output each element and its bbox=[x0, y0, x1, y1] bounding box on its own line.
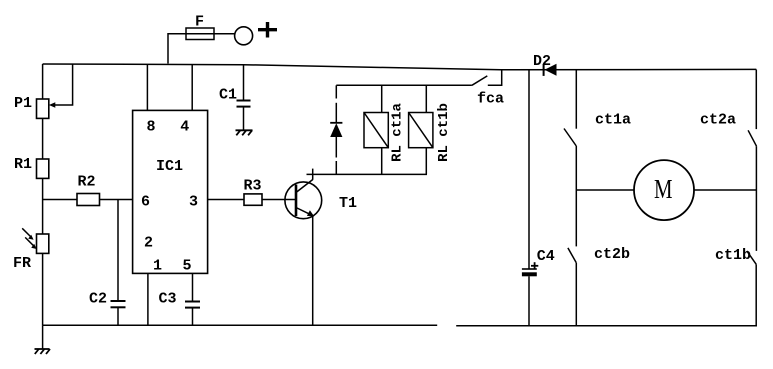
wire: R3 to T1 base bbox=[262, 199, 296, 201]
wire: T1 emitter to ground rail bbox=[312, 216, 314, 325]
svg-text:C4: C4 bbox=[537, 248, 555, 265]
wire: motor left lead bbox=[576, 189, 634, 191]
photoresistor FR bbox=[37, 234, 49, 253]
switch ct2b blade bbox=[568, 248, 576, 263]
svg-text:6: 6 bbox=[141, 194, 150, 211]
switch ct2a blade bbox=[748, 130, 756, 146]
svg-text:M: M bbox=[654, 174, 673, 204]
svg-text:D2: D2 bbox=[533, 53, 551, 70]
wire: pin3 to R3 bbox=[208, 199, 244, 201]
battery terminal circle bbox=[235, 27, 253, 45]
capacitor C2 bbox=[111, 200, 126, 326]
svg-text:R1: R1 bbox=[14, 156, 32, 173]
fuse F bbox=[186, 28, 235, 40]
FR light arrow 2 bbox=[25, 237, 36, 249]
relay coil RL ct1b bbox=[409, 85, 433, 174]
svg-text:ct2a: ct2a bbox=[700, 112, 736, 129]
wire: bridge right rail upper bbox=[755, 70, 757, 130]
svg-text:ct1a: ct1a bbox=[595, 112, 631, 129]
C4 plus polarity mark bbox=[531, 262, 538, 269]
wire: bridge right rail lower bbox=[755, 264, 757, 326]
switch fca blade bbox=[472, 76, 487, 85]
wire: pin8 riser bbox=[146, 64, 148, 110]
svg-text:fca: fca bbox=[477, 91, 504, 108]
wire: bridge left rail lower bbox=[575, 263, 577, 326]
svg-text:C2: C2 bbox=[89, 291, 107, 308]
svg-text:ct2b: ct2b bbox=[594, 246, 630, 263]
svg-text:P1: P1 bbox=[14, 95, 32, 112]
svg-text:C3: C3 bbox=[159, 291, 177, 308]
ground (main) bbox=[35, 349, 51, 354]
svg-text:C1: C1 bbox=[219, 87, 237, 104]
transistor T1 bbox=[285, 180, 322, 219]
svg-text:IC1: IC1 bbox=[156, 158, 183, 175]
svg-text:R2: R2 bbox=[77, 174, 95, 191]
resistor R3 bbox=[244, 194, 262, 205]
svg-text:5: 5 bbox=[182, 258, 191, 275]
motor M bbox=[634, 160, 694, 220]
svg-text:3: 3 bbox=[189, 194, 198, 211]
switch ct1b blade bbox=[747, 251, 756, 264]
wire: bottom rail (motor section) bbox=[456, 325, 757, 327]
svg-text:RL ct1a: RL ct1a bbox=[390, 102, 406, 161]
capacitor C3 bbox=[185, 273, 200, 325]
wire: P1 wiper branch bbox=[52, 64, 73, 106]
wire: top positive rail bbox=[43, 64, 757, 70]
potentiometer P1 bbox=[37, 99, 49, 118]
svg-text:ct1b: ct1b bbox=[715, 247, 751, 264]
wire: pin4 riser bbox=[191, 65, 193, 111]
wire: T1 collector riser bbox=[312, 169, 314, 180]
wire: bridge left rail upper bbox=[575, 70, 577, 129]
diode D1 (flyback) bbox=[330, 85, 342, 174]
wire: motor right lead bbox=[694, 189, 756, 191]
wire: fca right contact bbox=[488, 70, 502, 85]
FR light arrow 1 bbox=[22, 228, 33, 240]
svg-text:RL ct1b: RL ct1b bbox=[436, 103, 452, 162]
resistor R1 bbox=[37, 159, 49, 178]
wire: bridge left rail middle bbox=[575, 146, 577, 246]
svg-text:FR: FR bbox=[13, 255, 31, 272]
diode D2 bbox=[544, 64, 557, 76]
svg-text:8: 8 bbox=[146, 119, 155, 136]
svg-text:2: 2 bbox=[144, 235, 153, 252]
svg-text:R3: R3 bbox=[243, 178, 261, 195]
wire: bottom ground rail (left section) bbox=[43, 324, 438, 326]
P1 wiper arrowhead bbox=[49, 102, 55, 107]
wire: pin1 to ground rail bbox=[147, 273, 149, 325]
resistor R2 bbox=[77, 194, 100, 206]
svg-text:4: 4 bbox=[180, 119, 189, 136]
wire: R2 to pin 6 bbox=[100, 199, 133, 201]
capacitor C1 bbox=[237, 64, 251, 129]
wire: bridge right rail middle bbox=[755, 146, 757, 251]
capacitor C4 (electrolytic) bbox=[522, 70, 537, 326]
wire: fuse branch riser bbox=[168, 34, 186, 64]
wire: relay top feed rail bbox=[336, 84, 472, 86]
wire: relay common bottom rail bbox=[307, 173, 428, 175]
switch ct1a blade bbox=[564, 129, 576, 147]
svg-text:1: 1 bbox=[153, 258, 162, 275]
wire: left rail bbox=[42, 64, 44, 325]
IC1 body bbox=[133, 110, 208, 273]
wire: ground stub bbox=[42, 325, 44, 349]
svg-text:F: F bbox=[195, 14, 204, 31]
svg-text:T1: T1 bbox=[339, 195, 357, 212]
battery plus symbol bbox=[258, 22, 277, 38]
ground (C1) bbox=[236, 130, 253, 135]
wire: pin6 net bbox=[43, 199, 77, 201]
relay coil RL ct1a bbox=[364, 85, 388, 174]
